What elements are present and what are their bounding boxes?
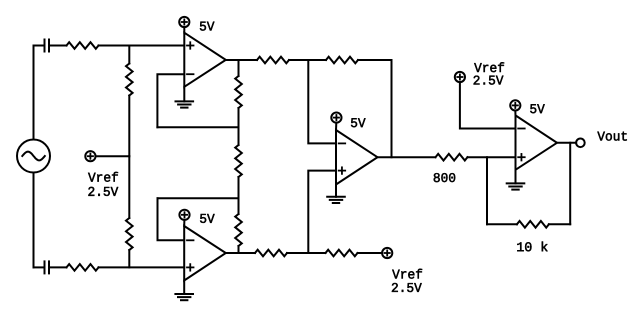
- capacitor C1: [34, 40, 67, 52]
- wire U2 inverting input: [158, 198, 185, 240]
- label Vref (bottom): [392, 269, 422, 279]
- ground (U3): [327, 185, 345, 204]
- wire R12 to U4 noninverting input: [468, 156, 516, 158]
- wire U2 feedback to node D: [158, 197, 239, 199]
- wire node C down from U3 noninverting input: [308, 171, 336, 253]
- 5V supply terminal U1: [179, 17, 189, 33]
- label 800: [434, 173, 456, 182]
- resistor R6 (gain chain middle): [235, 127, 242, 198]
- resistor R7 (gain chain bottom): [235, 198, 242, 253]
- label 5V (U1): [200, 22, 215, 31]
- AC source V1: [17, 140, 50, 173]
- resistor R12 800: [436, 154, 468, 161]
- wire node B down to U3 inverting input: [308, 60, 336, 143]
- op-amp U1 (top): [184, 33, 226, 87]
- Vout terminal: [576, 139, 585, 148]
- 5V supply terminal U3: [331, 113, 341, 131]
- ground (U1): [176, 87, 194, 108]
- label 5V (U4): [530, 104, 545, 113]
- resistor R13 10 k: [487, 221, 570, 228]
- resistor R4: [126, 156, 133, 267]
- Vref terminal (bottom): [382, 248, 392, 258]
- wire U1 inverting input: [157, 74, 184, 127]
- label Vout: [597, 132, 626, 141]
- resistor R11 (bottom reference): [326, 250, 358, 257]
- wire R8 to node B: [289, 59, 326, 61]
- wire Vref to U4 inverting input: [460, 82, 516, 128]
- resistor R8 (top difference input): [257, 57, 289, 64]
- wire left bottom vertical: [33, 173, 35, 268]
- op-amp U3 (middle): [336, 130, 378, 185]
- wire R11 to Vref terminal: [358, 252, 383, 254]
- wire bottom rail to op-amp U2 + input: [99, 266, 185, 268]
- resistor R1: [67, 42, 99, 49]
- resistor R5 (gain chain top): [235, 60, 242, 127]
- wire U3 output: [378, 156, 436, 158]
- label Vref (top right): [474, 62, 504, 72]
- label 10 k: [517, 242, 547, 252]
- resistor R2: [67, 264, 99, 271]
- label Vref (left): [88, 172, 118, 182]
- op-amp U4 (output): [516, 115, 558, 169]
- Vref terminal (top right): [455, 72, 465, 82]
- wire U4 feedback tap: [486, 157, 488, 224]
- label 5V (U3): [351, 118, 366, 127]
- wire U1 feedback to node A: [157, 126, 238, 128]
- 5V supply terminal U4: [510, 100, 520, 115]
- label 2.5V (top right): [474, 76, 504, 85]
- wire left top vertical: [33, 46, 35, 140]
- ground (U2): [175, 281, 193, 301]
- ground (U4): [507, 170, 525, 190]
- resistor R10 (bottom difference input): [255, 250, 287, 257]
- resistor R9 (top feedback): [326, 57, 358, 64]
- resistor R3: [126, 46, 133, 157]
- wire R9 to U3 output: [358, 60, 392, 157]
- wire Vref left to node: [96, 155, 130, 157]
- 5V supply terminal U2: [179, 210, 189, 226]
- op-amp U2 (bottom): [184, 226, 226, 281]
- Vref terminal (left): [85, 151, 95, 161]
- wire R10 to node C: [287, 252, 326, 254]
- wire feedback up to output: [569, 143, 571, 225]
- wire U2 output: [226, 252, 255, 254]
- label 5V (U2): [200, 214, 215, 223]
- capacitor C2: [34, 261, 67, 273]
- label 2.5V (left): [88, 187, 118, 196]
- label 2.5V (bottom): [392, 283, 422, 292]
- wire top rail to op-amp U1 + input: [99, 45, 185, 47]
- wire U4 output: [557, 142, 576, 144]
- wire U1 output: [226, 59, 257, 61]
